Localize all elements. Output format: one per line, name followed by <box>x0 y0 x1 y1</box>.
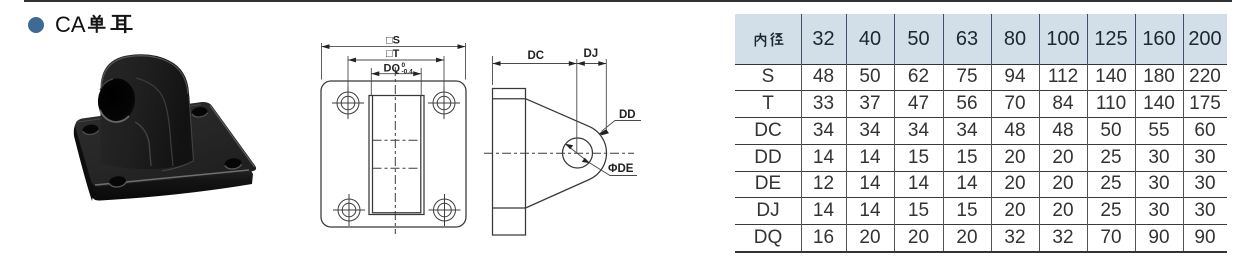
bolt hole front-left <box>108 175 126 188</box>
side view centerline <box>484 152 634 154</box>
row T <box>735 90 801 117</box>
单 <box>88 15 106 33</box>
plate front side face <box>92 169 254 201</box>
row DJ <box>735 197 801 224</box>
pivot hole <box>563 138 593 168</box>
clevis ear body <box>101 54 194 169</box>
front view plate outline <box>321 81 466 227</box>
clevis ear profile <box>526 99 607 208</box>
DD leader <box>602 121 642 132</box>
header hanzi 内径 drawn as vector strokes <box>735 14 801 64</box>
svg-text:DD: DD <box>619 109 636 121</box>
photo of bracket (SVG recreation) <box>0 0 300 269</box>
row DC <box>735 117 801 144</box>
svg-text:□T: □T <box>386 48 400 60</box>
row DD <box>735 144 801 171</box>
svg-text:□S: □S <box>386 35 400 47</box>
title text CA单耳 <box>55 12 86 38</box>
title bullet <box>28 17 44 33</box>
DE leader through hole <box>566 145 637 176</box>
svg-text:DC: DC <box>528 50 545 62</box>
ear right rim light <box>162 96 194 171</box>
dimension S <box>322 43 466 80</box>
hole top-left <box>337 92 359 114</box>
ear band left lower highlight <box>135 122 151 166</box>
top rule line <box>24 0 1232 2</box>
row DQ <box>735 224 801 251</box>
plate top-right edge highlight <box>210 106 255 168</box>
耳 <box>110 16 132 33</box>
svg-text:ΦDE: ΦDE <box>608 163 634 175</box>
ear top band highlight <box>101 56 188 94</box>
svg-text:DQ: DQ <box>384 62 401 74</box>
内 <box>755 33 765 47</box>
hole bottom-right <box>434 199 456 221</box>
front view center dashed lines <box>373 67 422 234</box>
bolt hole front-right <box>224 157 242 170</box>
data table <box>735 14 1227 251</box>
technical drawings SVG <box>300 0 740 269</box>
bolt hole back-left <box>82 124 99 136</box>
ear hole rim highlight <box>100 110 129 122</box>
side view plate <box>493 89 607 236</box>
row DE <box>735 171 801 197</box>
svg-text:-0.4: -0.4 <box>402 68 414 75</box>
header row <box>735 14 1227 64</box>
dimension DQ <box>371 68 421 95</box>
dimension DC / DJ <box>493 56 607 153</box>
ear band inner edge <box>136 78 173 166</box>
plate top-left edge highlight <box>78 105 201 123</box>
hole top-right <box>433 92 455 114</box>
bolt hole back-right <box>191 106 208 118</box>
row S <box>735 64 801 90</box>
plate top face <box>75 102 256 187</box>
hole bottom-left <box>338 199 360 221</box>
ear hole <box>96 77 137 125</box>
front view slot outer rect <box>369 96 424 215</box>
dimension T <box>348 56 444 88</box>
plate left side face <box>74 122 95 201</box>
front view slot inner lines <box>373 96 421 213</box>
径 <box>771 33 784 47</box>
plate front edge highlight <box>95 170 249 185</box>
title hanzi 单耳 drawn as vector strokes <box>0 0 300 60</box>
svg-text:DJ: DJ <box>584 48 599 60</box>
